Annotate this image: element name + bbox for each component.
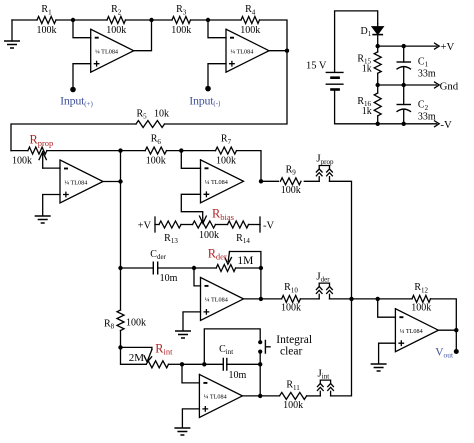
node C junction [206,18,210,22]
resistor R3 100k [171,4,191,36]
resistor R6 100k [145,134,166,167]
wire U2 noninverting input to Input(-) terminal [208,64,226,89]
terminal -V (bias network) [260,217,274,232]
node D junction at U2 output [285,49,289,53]
wire U3 noninverting input to ground [43,195,60,216]
wire ground to R1 [12,19,37,21]
svg-text:+V: +V [138,220,152,231]
wire Rprop wiper to U3 inverting input [43,167,60,169]
node P junction [118,345,122,349]
wire U5 output to R10 [244,298,282,300]
ground (U5 +input) [175,331,191,338]
jumper Jint [317,367,334,396]
wire Rder wiper loop to node K [230,252,261,269]
node -V rail left junction [376,122,380,126]
wire node E to node F vertical [120,151,122,182]
node M junction [349,297,353,301]
-V rail with arrow [335,119,452,131]
svg-text:¼ TL084: ¼ TL084 [400,328,423,335]
terminal Input(-) [205,86,211,92]
terminal +V (bias network) [138,217,155,232]
node R junction [202,362,206,366]
svg-text:100k: 100k [240,25,260,36]
wire Rprop to node E [47,150,121,152]
svg-text:+V: +V [440,41,454,53]
resistor R5 10k [136,121,165,128]
terminal Input(+) [70,87,76,93]
svg-text:-V: -V [263,220,274,231]
wire node N to R12 [378,298,412,300]
wire node J to Rder [194,267,216,269]
resistor R4 100k [240,4,260,36]
diode D1 [361,24,384,46]
wire node C to R4 [208,19,241,21]
resistor R12 100k [411,282,431,313]
wire node B to R3 [152,19,173,21]
node E junction [118,148,122,152]
svg-text:10k: 10k [154,108,169,119]
battery 15V [306,11,378,124]
wire node G down to U4 inverting input [181,151,200,169]
node T junction at U6 output [258,394,262,398]
switch Integral clear [204,329,270,364]
op-amp U4 (quarter TL084) [201,160,244,203]
svg-text:15 V: 15 V [306,60,327,71]
wire node I down to R8 [120,268,122,310]
op-amp U5 (quarter TL084) [201,277,244,320]
node F junction [118,179,122,183]
node Gnd rail left junction [376,83,380,87]
svg-text:Integral: Integral [276,334,312,346]
wire R11 to Jint [307,395,321,397]
potentiometer Rint 2M [121,341,174,368]
wire R4 feedback down to U2 output [260,20,288,51]
potentiometer Rder 1M [208,247,254,272]
op-amp U2 (quarter TL084) [226,29,269,72]
svg-text:-V: -V [440,119,452,131]
svg-text:100k: 100k [171,25,191,36]
svg-text:100k: 100k [281,185,301,196]
svg-text:100k: 100k [281,302,301,313]
wire R6 to node G [167,150,182,152]
node A junction [71,18,75,22]
wire U2 output to R5 row [269,50,287,52]
wire Rbias to R14 [216,224,228,226]
wire U6 output to R11 [242,395,279,397]
potentiometer Rbias wiper arrow [199,216,206,224]
svg-text:1k: 1k [362,63,372,74]
svg-text:1M: 1M [237,255,253,267]
wire U4 noninverting input to Rbias wiper [181,194,202,217]
svg-text:100k: 100k [12,155,32,166]
ground (U6 +input) [174,428,190,435]
resistor R16 1k [357,85,381,124]
+V rail with arrow [378,41,455,53]
jumper Jprop [316,153,334,182]
svg-text:100k: 100k [106,25,126,36]
op-amp U6 (quarter TL084) [199,374,242,417]
op-amp U3 (quarter TL084) [60,160,103,203]
resistor R8 100k [104,310,146,331]
resistor R11 100k [280,380,307,411]
node G junction [179,148,183,152]
svg-text:1k: 1k [362,106,372,117]
svg-text:100k: 100k [411,302,431,313]
wire node E to R6 [121,150,146,152]
resistor R10 100k [281,282,301,313]
wire +V terminal to R13 [155,224,159,226]
resistor R2 100k [106,4,126,36]
wire node C down to U2 inverting input [208,20,226,38]
resistor R7 100k [216,134,237,167]
svg-text:33m: 33m [418,111,436,122]
wire U1 output feedback up to node B [134,20,152,51]
node -V rail right junction [402,122,406,126]
wire node O down to Vout terminal [455,330,457,351]
node B junction [149,18,153,22]
jumper Jder [316,270,333,299]
svg-text:¼ TL084: ¼ TL084 [205,297,228,304]
label Input(-) [189,93,221,107]
terminal Vout [454,349,459,354]
svg-text:100k: 100k [199,230,219,241]
svg-text:100k: 100k [146,156,166,167]
node N junction [376,297,380,301]
wire U6 noninverting input to ground [182,409,199,428]
svg-text:¼ TL084: ¼ TL084 [230,49,253,56]
capacitor Cder 10m [150,249,177,284]
capacitor Cint 10m [219,344,246,381]
wire Jprop to summing bus [330,181,352,299]
wire node F down to node I [120,182,122,269]
svg-text:10m: 10m [229,370,247,381]
wire U5 noninverting input to ground [183,312,201,331]
wire node N down to U7 inverting input [378,299,396,317]
wire R3 to node C [191,19,209,21]
wire node Q down to U6 inverting input [182,364,199,383]
resistor R14 1k [228,221,249,228]
svg-text:Gnd: Gnd [440,80,459,92]
node +V rail junction [376,44,380,48]
wire R13 to Rbias [181,224,193,226]
node Gnd rail right junction [402,83,406,87]
potentiometer Rprop 100k [12,133,53,169]
resistor R9 100k [280,164,301,196]
wire U3 output to node F [103,181,121,183]
wire node M to node N [352,298,378,300]
node C1 top junction [402,44,406,48]
capacitor C2 33m [397,85,436,124]
wire Cint to node S [227,363,260,365]
label Input(+) [60,94,93,108]
wire R10 to Jder [300,298,319,300]
wire node J down to U5 inverting input [194,268,201,286]
wire R1 to node A [56,19,73,21]
wire R12 feedback down to U7 output [431,299,457,330]
wire U1 noninverting input to Input(+) terminal [73,64,91,90]
wire node K down to U5 output [260,268,262,299]
ground (input bias) [4,20,20,48]
label R14 [236,233,250,245]
wire R7 feedback down to U4 output node H [237,151,262,182]
wire node H to R9 [261,180,278,182]
wire R14 to -V terminal [249,224,261,226]
resistor R13 1k [159,221,181,228]
ground (U7 +input) [371,364,387,371]
wire left rail to Rprop [11,150,28,152]
wire Cder to node J [158,267,194,269]
op-amp U1 (quarter TL084) [91,29,134,72]
svg-text:100k: 100k [283,400,303,411]
label R13 [164,233,178,245]
wire node R to Cint [204,363,223,365]
wire R2 to node B [126,19,152,21]
wire R8 to node P [120,331,122,348]
label Vout [435,347,454,360]
label Integral clear [276,334,312,357]
svg-text:¼ TL084: ¼ TL084 [205,179,228,186]
wire Rder to node K [236,267,261,269]
node O junction at U7 output [454,328,458,332]
svg-text:100k: 100k [216,156,236,167]
node K junction [259,266,263,270]
wire Jint to summing bus [331,299,352,396]
node H junction at U4 output [259,179,263,183]
capacitor C1 33m [397,46,436,85]
svg-text:clear: clear [280,345,303,357]
svg-text:100k: 100k [126,318,146,329]
svg-text:2M: 2M [129,352,145,364]
svg-text:¼ TL084: ¼ TL084 [64,179,87,186]
wire node G to R7 [181,150,215,152]
potentiometer Rbias 100k [193,207,234,242]
wire U2 output down and left to R5 [165,51,288,124]
wire R5 to left rail [11,124,136,151]
node S junction [258,362,262,366]
node L junction at U5 output [259,297,263,301]
wire U7 output to Vout [438,329,456,331]
node J junction [192,266,196,270]
svg-text:10m: 10m [160,273,178,284]
wire U7 noninverting input to ground [379,343,396,363]
resistor R15 1k [357,46,381,85]
wire node I to Cder [121,267,154,269]
wire R9 to Jprop [304,180,319,182]
wire node S down to U6 output [259,364,261,396]
wire node A to R2 [73,19,107,21]
Gnd rail with arrow [378,80,459,92]
svg-text:¼ TL084: ¼ TL084 [204,394,227,401]
svg-text:¼ TL084: ¼ TL084 [95,49,118,56]
node I junction [118,266,122,270]
wire Rint to node Q [169,363,183,365]
wire node Q to node R [182,363,204,365]
ground (U3 +input) [35,216,51,223]
svg-text:100k: 100k [37,25,57,36]
wire Jder to summing bus node M [330,298,352,300]
resistor R1 100k [37,4,57,36]
wire node A down to U1 inverting input [73,20,91,38]
op-amp U7 (quarter TL084) [395,309,438,352]
wire node P down to Rint [121,347,147,364]
node Q junction [180,362,184,366]
label R5 10k [137,108,170,120]
svg-text:33m: 33m [418,68,436,79]
